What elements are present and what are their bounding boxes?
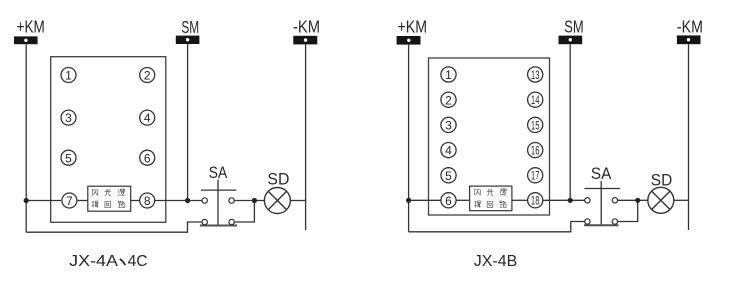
terminal 2 (right) xyxy=(441,92,456,107)
svg-text:2: 2 xyxy=(144,69,151,83)
node junction at SM drop (right) xyxy=(568,198,573,203)
relay case box xyxy=(51,57,166,223)
svg-text:18: 18 xyxy=(531,196,540,208)
switch SA contact lower-right (right) xyxy=(612,219,617,224)
wire terminal 8 to SA xyxy=(155,200,202,202)
svg-text:+KM: +KM xyxy=(17,17,45,37)
svg-text:8: 8 xyxy=(144,194,151,208)
svg-text:15: 15 xyxy=(531,120,540,132)
node junction at +KM drop xyxy=(24,198,29,203)
svg-text:17: 17 xyxy=(531,171,540,183)
switch SA contact lower-left xyxy=(202,219,207,224)
svg-text:13: 13 xyxy=(531,70,540,82)
bus SM bar (right) xyxy=(559,36,583,45)
switch SA contact upper-left (right) xyxy=(585,198,590,203)
switch SA contact upper-right (right) xyxy=(612,198,617,203)
wire SA lower-right up to node (right) xyxy=(618,200,638,221)
wire SA upper-right to lamp (right) xyxy=(618,199,648,201)
svg-text:5: 5 xyxy=(65,151,72,165)
lamp SD (right) xyxy=(648,187,674,213)
svg-text:1: 1 xyxy=(445,68,452,82)
node junction before lamp (right) xyxy=(635,198,640,203)
svg-text:3: 3 xyxy=(445,119,452,133)
wire bottom run to SA lower-left contact (right) xyxy=(409,222,585,232)
bus +KM bar (right) xyxy=(397,36,421,45)
svg-text:4: 4 xyxy=(445,144,452,158)
terminal 6 xyxy=(140,150,155,165)
svg-text:1: 1 xyxy=(65,69,72,83)
wire terminal 6 to flash box (right) xyxy=(457,199,470,201)
terminal 14 xyxy=(528,92,543,107)
relay case box (right) xyxy=(429,58,550,215)
wire +KM to terminal 6 xyxy=(409,199,441,201)
switch SA contact upper-right xyxy=(229,198,234,203)
terminal 8 xyxy=(140,193,155,208)
terminal 1 (right) xyxy=(441,67,456,82)
svg-text:SM: SM xyxy=(181,17,199,37)
switch SA top bar xyxy=(201,189,237,191)
wire +KM drop xyxy=(25,44,27,232)
wire +KM drop (right) xyxy=(408,45,410,232)
wire +KM to terminal 7 xyxy=(26,200,61,202)
bus -KM bar xyxy=(293,36,317,45)
svg-text:7: 7 xyxy=(66,194,73,208)
wire lamp to -KM drop xyxy=(290,200,305,202)
flash logic box (right) xyxy=(470,186,512,211)
wire bottom run to SA lower-left contact xyxy=(26,222,202,232)
terminal 4 xyxy=(140,110,155,125)
node junction at SM drop xyxy=(185,198,190,203)
terminal 15 xyxy=(528,117,543,132)
svg-text:SA: SA xyxy=(591,164,612,183)
svg-text:+KM: +KM xyxy=(398,17,428,37)
bus -KM bar (right) xyxy=(677,35,701,44)
terminal 6 (right) xyxy=(441,193,456,208)
node junction at +KM drop (right) xyxy=(406,198,411,203)
switch SA bottom bar xyxy=(200,225,237,227)
wire SM drop (right) xyxy=(569,44,571,200)
wire flash box to terminal 8 xyxy=(131,200,140,202)
terminal 3 (right) xyxy=(441,117,456,132)
terminal 5 xyxy=(61,150,76,165)
switch SA contact upper-left xyxy=(202,198,207,203)
switch SA bottom bar (right) xyxy=(584,224,619,226)
LEFT DIAGRAM JX-4A/4C xyxy=(14,17,320,271)
svg-text:SM: SM xyxy=(564,16,583,36)
wire SA lower-right up to node xyxy=(234,201,254,223)
wire -KM drop xyxy=(305,44,307,230)
wire terminal 18 to SA (right) xyxy=(543,199,585,201)
node junction before lamp xyxy=(252,198,257,203)
switch SA linkage vertical (right) xyxy=(600,181,602,225)
switch SA linkage vertical xyxy=(217,180,219,226)
svg-text:JX-4B: JX-4B xyxy=(474,253,518,270)
svg-text:2: 2 xyxy=(445,93,452,107)
flash logic box xyxy=(88,186,131,211)
terminal 16 xyxy=(528,143,543,158)
svg-text:6: 6 xyxy=(144,151,151,165)
svg-text:5: 5 xyxy=(445,169,452,183)
svg-text:4C: 4C xyxy=(128,253,148,270)
svg-text:16: 16 xyxy=(531,146,540,158)
svg-text:SD: SD xyxy=(267,170,289,189)
flash logic text row1 (right) xyxy=(474,188,480,195)
svg-text:SA: SA xyxy=(209,163,228,182)
svg-text:4: 4 xyxy=(144,111,151,125)
terminal 2 xyxy=(140,68,155,83)
terminal 7 xyxy=(62,193,77,208)
svg-text:JX-4A: JX-4A xyxy=(69,253,118,270)
bus +KM bar xyxy=(14,36,38,44)
svg-text:-KM: -KM xyxy=(677,17,703,37)
wire -KM drop (right) xyxy=(688,44,690,230)
svg-text:6: 6 xyxy=(445,194,452,208)
wire SA upper-right to lamp xyxy=(234,200,264,202)
wire flash box to terminal 18 xyxy=(512,199,527,201)
flash logic text row2: ji hui lu xyxy=(92,201,99,208)
terminal 3 xyxy=(61,110,76,125)
wire lamp to -KM drop (right) xyxy=(674,199,689,201)
flash logic text row2 (right) xyxy=(474,201,481,208)
terminal 4 (right) xyxy=(441,143,456,158)
terminal 1 xyxy=(61,68,76,83)
RIGHT DIAGRAM JX-4B xyxy=(397,16,703,270)
terminal 18 xyxy=(528,193,543,208)
terminal 5 (right) xyxy=(441,168,456,183)
svg-text:-KM: -KM xyxy=(293,17,320,37)
switch SA top bar (right) xyxy=(584,188,620,190)
svg-text:14: 14 xyxy=(531,95,540,107)
flash logic text row1: shan guang luo xyxy=(92,189,98,196)
wire terminal 7 to flash box xyxy=(78,200,88,202)
terminal 17 xyxy=(528,168,543,183)
lamp SD xyxy=(264,188,290,214)
switch SA contact lower-right xyxy=(229,219,234,224)
wire SM drop xyxy=(187,44,189,201)
bus SM bar xyxy=(176,36,200,44)
terminal 13 xyxy=(528,67,543,82)
svg-text:3: 3 xyxy=(65,111,72,125)
switch SA contact lower-left (right) xyxy=(585,219,590,224)
